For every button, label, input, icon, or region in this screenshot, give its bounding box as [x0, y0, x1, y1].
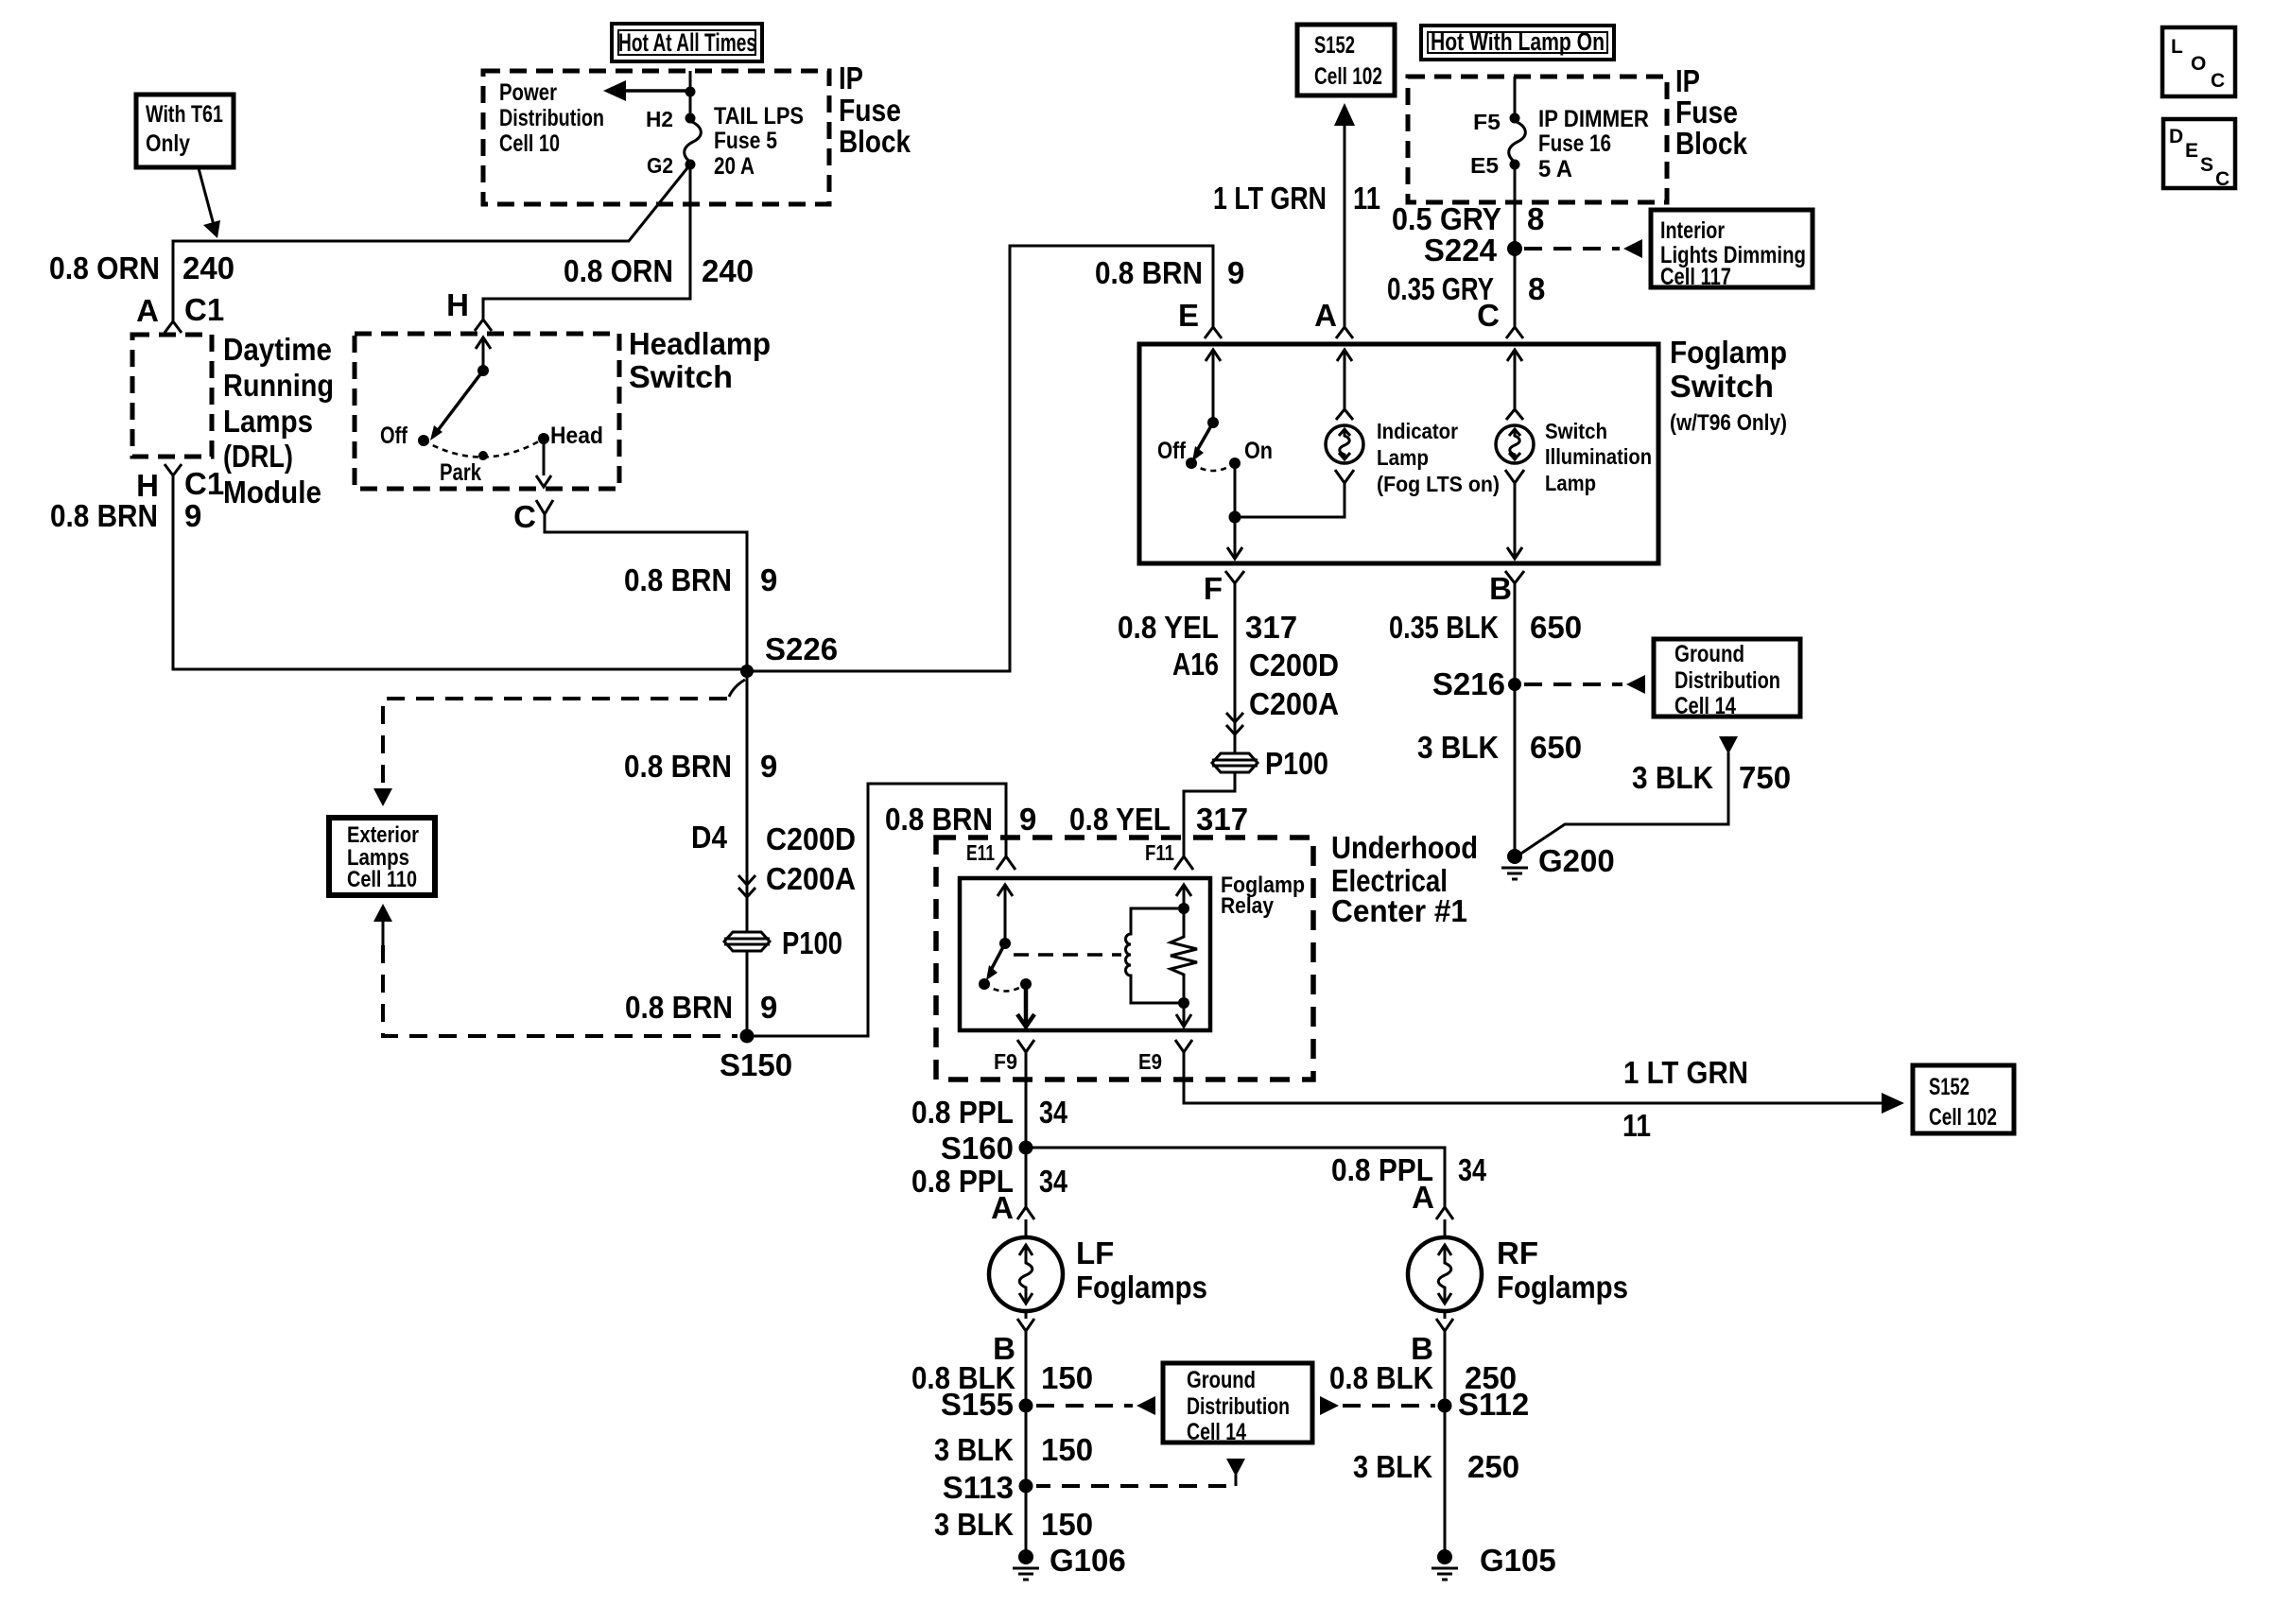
svg-text:C: C: [2211, 70, 2225, 92]
reference box S152 Cell 102 (top): [1297, 25, 1395, 95]
splice S150: [720, 1029, 792, 1083]
wire 0.8 PPL 34 from F9 to S160: [1025, 1052, 1028, 1148]
svg-text:L: L: [2171, 36, 2183, 58]
svg-text:Park: Park: [440, 459, 481, 486]
svg-text:Cell 14: Cell 14: [1187, 1419, 1246, 1445]
wire 1 LT GRN 11 from E9 to S152 (bottom): [1184, 1052, 1904, 1114]
label 0.35 GRY 8: [1387, 271, 1545, 306]
terminal B of LF foglamp: [993, 1311, 1034, 1366]
svg-text:Running: Running: [223, 368, 334, 403]
dashed reference line to Exterior Lamps (top): [383, 699, 727, 785]
relay switch arm: [986, 938, 1011, 980]
label Foglamp Relay: [1221, 872, 1305, 919]
svg-text:Cell 102: Cell 102: [1929, 1104, 1997, 1131]
svg-text:F11: F11: [1145, 840, 1174, 865]
LF foglamp bulb: [989, 1219, 1207, 1311]
svg-text:A: A: [1314, 298, 1337, 333]
legend box DESC: [2163, 119, 2235, 190]
label 0.8 PPL 34 (LF): [911, 1164, 1068, 1199]
svg-text:Distribution: Distribution: [499, 105, 604, 131]
svg-text:S216: S216: [1432, 666, 1505, 701]
wire 0.8 YEL 317 from F terminal down: [1234, 583, 1237, 753]
svg-text:F5: F5: [1473, 110, 1501, 134]
svg-text:Foglamps: Foglamps: [1076, 1270, 1207, 1304]
legend box LOC: [2162, 27, 2235, 96]
svg-text:34: 34: [1039, 1095, 1068, 1130]
Headlamp Switch dashed box: [355, 334, 619, 489]
svg-text:Hot At All Times: Hot At All Times: [618, 28, 756, 57]
svg-text:317: 317: [1245, 610, 1297, 645]
terminal B of RF foglamp: [1411, 1311, 1453, 1366]
dashed reference line S216 to Ground Distribution: [1524, 675, 1645, 694]
Foglamp Relay box: [960, 878, 1210, 1030]
fuse 5 "TAIL LPS Fuse 5 20 A": [647, 103, 804, 180]
svg-text:S160: S160: [941, 1131, 1014, 1166]
svg-text:11: 11: [1353, 181, 1380, 216]
svg-text:S113: S113: [943, 1470, 1014, 1505]
wire junction to H2: [689, 92, 692, 118]
svg-text:A16: A16: [1172, 647, 1219, 682]
svg-text:1 LT GRN: 1 LT GRN: [1623, 1055, 1748, 1090]
svg-text:11: 11: [1622, 1108, 1651, 1143]
svg-text:240: 240: [182, 251, 234, 285]
ground G105: [1431, 1543, 1556, 1580]
svg-text:O: O: [2191, 53, 2206, 75]
svg-text:G106: G106: [1050, 1543, 1126, 1578]
title box "Hot At All Times": [612, 24, 762, 61]
wire 0.8 BLK 250 from RF B to S112: [1444, 1331, 1447, 1406]
svg-text:0.5 GRY: 0.5 GRY: [1392, 201, 1501, 236]
svg-text:0.8 BRN: 0.8 BRN: [624, 562, 732, 597]
svg-text:Fuse: Fuse: [1675, 95, 1738, 130]
dashed reference line S224 to Interior Lights Dimming: [1524, 239, 1642, 258]
wire 0.8 BRN 9 from S226 down to S150: [746, 671, 749, 932]
svg-text:240: 240: [702, 253, 754, 288]
wire Head contact to C terminal: [536, 439, 551, 487]
svg-text:Switch: Switch: [629, 359, 733, 394]
wire 0.8 BLK 150 from LF B to S155: [1025, 1331, 1028, 1406]
splice S224: [1424, 233, 1522, 268]
svg-text:F: F: [1204, 571, 1223, 606]
svg-text:Fuse: Fuse: [839, 93, 901, 128]
foglamp switch C pin wire: [1506, 350, 1523, 420]
wire 3 BLK 150 from S113 to G106: [1025, 1486, 1028, 1557]
svg-text:150: 150: [1041, 1360, 1093, 1395]
switch illumination lamp: [1496, 419, 1652, 495]
terminal A / C1 of DRL module: [136, 292, 224, 333]
svg-text:S152: S152: [1314, 32, 1355, 59]
svg-text:Fuse 5: Fuse 5: [714, 128, 777, 154]
wire 0.8 YEL 317 from P100 to F11: [1184, 772, 1235, 856]
svg-text:A: A: [991, 1190, 1014, 1225]
svg-text:Cell 10: Cell 10: [499, 130, 560, 157]
relay switch pin wire (E11): [998, 885, 1013, 943]
svg-text:34: 34: [1458, 1152, 1487, 1187]
wire 0.8 BRN 9 from S150 to E11: [747, 784, 1006, 1036]
reference box Interior Lights Dimming Cell 117: [1651, 210, 1813, 290]
svg-text:0.8 ORN: 0.8 ORN: [49, 251, 160, 285]
svg-text:C: C: [513, 499, 536, 534]
label 0.8 BLK 250: [1329, 1360, 1517, 1395]
svg-text:(DRL): (DRL): [223, 439, 293, 474]
svg-text:Ground: Ground: [1674, 641, 1744, 667]
svg-text:Cell 117: Cell 117: [1660, 264, 1731, 290]
wire coil bottom to E9: [1176, 1003, 1191, 1027]
label 3 BLK 150 (mid): [934, 1432, 1093, 1467]
arrow into Exterior Lamps box: [373, 788, 392, 806]
contact Off (foglamp switch): [1157, 438, 1197, 469]
label 0.8 YEL 317 (lower): [1069, 802, 1248, 837]
splice S112: [1438, 1387, 1530, 1422]
svg-text:RF: RF: [1497, 1235, 1538, 1270]
reference box Exterior Lamps Cell 110: [329, 818, 435, 895]
svg-text:E11: E11: [966, 840, 995, 865]
svg-text:9: 9: [1019, 802, 1036, 837]
svg-text:0.8 BRN: 0.8 BRN: [625, 990, 733, 1025]
svg-text:Ground: Ground: [1187, 1367, 1256, 1393]
svg-text:3 BLK: 3 BLK: [1353, 1449, 1432, 1484]
svg-text:With T61: With T61: [146, 101, 223, 128]
pin F11: [1145, 840, 1193, 870]
note box "With T61 Only": [136, 95, 234, 167]
svg-text:Block: Block: [839, 124, 911, 159]
svg-text:650: 650: [1530, 730, 1582, 765]
label 0.8 ORN 240 (right): [564, 253, 754, 288]
wire from Hot At All Times into fuse block: [689, 71, 692, 92]
label 3 BLK 250: [1353, 1449, 1519, 1484]
svg-text:0.8 BRN: 0.8 BRN: [1095, 255, 1203, 290]
relay actuation dashed link: [1014, 953, 1121, 957]
headlamp switch arm: [430, 365, 489, 441]
svg-text:LF: LF: [1076, 1235, 1114, 1270]
label 0.8 PPL 34 (RF): [1331, 1152, 1487, 1187]
splice S155: [941, 1387, 1033, 1422]
svg-text:Off: Off: [380, 423, 408, 449]
svg-text:0.8 PPL: 0.8 PPL: [911, 1095, 1014, 1130]
svg-text:750: 750: [1739, 760, 1791, 795]
headlamp switch wire into pivot: [476, 337, 491, 371]
pin E9: [1138, 1040, 1192, 1074]
svg-text:Center #1: Center #1: [1331, 893, 1467, 928]
splice S226: [740, 631, 838, 678]
svg-text:Lamp: Lamp: [1377, 445, 1429, 470]
svg-text:S: S: [2200, 154, 2213, 176]
label 0.5 GRY 8: [1392, 201, 1544, 236]
svg-text:G105: G105: [1480, 1543, 1556, 1578]
reference box Ground Distribution Cell 14 (upper): [1654, 639, 1800, 719]
svg-text:0.35 BLK: 0.35 BLK: [1389, 610, 1499, 645]
terminal B of foglamp switch: [1489, 571, 1524, 606]
wire 1 LT GRN 11 up-arrow to S152: [1334, 103, 1355, 327]
svg-text:On: On: [1244, 438, 1273, 464]
foglamp switch E pin wire: [1206, 350, 1221, 423]
label 1 LT GRN 11 (bottom): [1622, 1055, 1748, 1143]
wire 0.5 GRY 8 from E5 to S224: [1514, 164, 1517, 327]
terminal A of foglamp switch: [1314, 298, 1353, 338]
svg-text:Off: Off: [1157, 438, 1187, 464]
wire 0.8 ORN 240 from G2 to headlamp switch: [483, 164, 690, 320]
svg-text:Illumination: Illumination: [1545, 444, 1652, 469]
svg-text:0.8 BLK: 0.8 BLK: [1329, 1360, 1433, 1395]
svg-text:C200A: C200A: [766, 861, 856, 896]
label 0.8 YEL 317: [1118, 610, 1297, 645]
svg-text:Indicator: Indicator: [1377, 419, 1458, 443]
grommet P100 (F branch): [1212, 746, 1328, 781]
svg-text:C: C: [2215, 168, 2230, 190]
Underhood Electrical Center #1 dashed box: [936, 838, 1313, 1080]
svg-text:Foglamp: Foglamp: [1670, 335, 1787, 370]
svg-text:0.8 BRN: 0.8 BRN: [50, 498, 158, 533]
svg-text:E: E: [2185, 140, 2198, 162]
label IP Fuse Block (left): [839, 60, 911, 159]
ground G106: [1013, 1543, 1126, 1580]
svg-text:S112: S112: [1458, 1387, 1529, 1422]
label 0.8 BRN 9 (below DRL): [50, 498, 201, 533]
terminal H of headlamp switch: [446, 287, 492, 331]
arrow out of Exterior Lamps box toward S150: [373, 904, 392, 945]
terminal E of foglamp switch: [1178, 298, 1222, 338]
svg-text:3 BLK: 3 BLK: [934, 1432, 1014, 1467]
label 0.8 BRN 9 (above S150): [625, 990, 777, 1025]
svg-text:Only: Only: [146, 130, 190, 157]
svg-text:1 LT GRN: 1 LT GRN: [1213, 181, 1327, 216]
pin H2: [646, 107, 696, 131]
label Underhood Electrical Center #1: [1331, 830, 1478, 928]
svg-text:C200D: C200D: [766, 821, 856, 856]
wire arrow to Power Distribution: [603, 80, 686, 101]
wire 0.8 PPL 34 from S160 to LF foglamp: [1025, 1148, 1028, 1207]
label 0.35 BLK 650: [1389, 610, 1582, 645]
wire into fuse 16: [1514, 77, 1517, 118]
svg-text:3 BLK: 3 BLK: [934, 1507, 1014, 1542]
svg-text:IP: IP: [839, 60, 863, 95]
dashed reference line Exterior Lamps to S150: [383, 945, 737, 1036]
svg-text:C200D: C200D: [1249, 648, 1339, 682]
wire 0.8 BRN 9 from S226 to foglamp switch E: [747, 246, 1213, 671]
svg-text:20 A: 20 A: [714, 153, 755, 180]
Foglamp Switch box: [1139, 344, 1658, 563]
wire 0.8 BRN 9 from headlamp C to S226: [545, 514, 747, 669]
wire 3 BLK 750 from Ground Distribution to G200: [1519, 736, 1738, 855]
wire On contact down to F junction: [1234, 463, 1237, 517]
wire 3 BLK 250 from S112 to G105: [1444, 1406, 1447, 1557]
svg-text:Switch: Switch: [1670, 369, 1774, 404]
svg-text:G2: G2: [647, 153, 673, 178]
svg-text:(Fog LTS on): (Fog LTS on): [1377, 472, 1500, 496]
relay resistor: [1171, 908, 1197, 1003]
label 0.8 BRN 9 (middle): [624, 749, 777, 784]
svg-text:34: 34: [1039, 1164, 1068, 1199]
svg-text:Cell 14: Cell 14: [1674, 693, 1736, 719]
reference box Ground Distribution Cell 14 (lower): [1163, 1363, 1312, 1445]
svg-text:S152: S152: [1929, 1074, 1969, 1100]
foglamp switch arm: [1192, 417, 1219, 461]
foglamp switch A pin wire: [1336, 350, 1353, 420]
ground G200: [1501, 843, 1615, 879]
dashed reference line Ground Distribution to S112: [1320, 1396, 1435, 1415]
label 0.8 PPL 34 (upper): [911, 1095, 1068, 1130]
svg-text:Block: Block: [1675, 126, 1748, 161]
svg-text:9: 9: [760, 562, 777, 597]
contact Head (headlamp switch): [538, 423, 603, 449]
IP fuse block (left) dashed outline: [483, 71, 829, 204]
svg-text:9: 9: [760, 990, 777, 1025]
connector C200D/C200A (DRL branch) pin D4: [691, 820, 856, 897]
dashed reference hook from S226: [729, 680, 745, 697]
svg-text:Distribution: Distribution: [1187, 1393, 1290, 1420]
svg-text:B: B: [1489, 571, 1512, 606]
svg-text:150: 150: [1041, 1507, 1093, 1542]
label Power Distribution Cell 10: [499, 79, 604, 157]
terminal A of RF foglamp: [1412, 1180, 1453, 1219]
dashed throw arc relay contacts: [984, 984, 1026, 992]
svg-text:Cell 102: Cell 102: [1314, 63, 1382, 90]
terminal C of headlamp switch: [513, 499, 553, 534]
svg-text:0.8 ORN: 0.8 ORN: [564, 253, 673, 288]
relay contact (output): [1020, 978, 1032, 990]
label 3 BLK 150 (lower): [934, 1507, 1093, 1542]
node junction above fuse: [685, 87, 696, 97]
label 3 BLK 750: [1632, 760, 1791, 795]
label IP Fuse Block (right): [1675, 63, 1748, 161]
pin E11: [966, 840, 1015, 870]
label 0.8 BRN 9 (E11): [885, 802, 1036, 837]
wire 3 BLK 150 from S155 to S113: [1025, 1406, 1028, 1486]
reference box S152 Cell 102 (bottom): [1913, 1065, 2014, 1133]
pin F9: [994, 1040, 1034, 1074]
IP fuse block (right) dashed outline: [1408, 77, 1667, 202]
svg-text:E5: E5: [1470, 153, 1499, 178]
svg-text:Power: Power: [499, 79, 557, 106]
wire switch illumination lamp to B terminal: [1507, 483, 1522, 559]
splice S216: [1432, 666, 1521, 701]
svg-text:150: 150: [1041, 1432, 1093, 1467]
wire junction down to F terminal: [1227, 517, 1242, 559]
wire P100 to S150: [746, 951, 749, 1036]
svg-text:650: 650: [1530, 610, 1582, 645]
wire relay output to F9: [1017, 984, 1034, 1027]
svg-text:8: 8: [1528, 271, 1545, 306]
label 1 LT GRN 11: [1213, 181, 1380, 216]
terminal H / C1 of DRL module: [136, 464, 224, 503]
svg-text:IP: IP: [1675, 63, 1700, 98]
svg-text:Exterior: Exterior: [347, 822, 419, 848]
svg-text:D: D: [2169, 126, 2183, 147]
svg-text:Interior: Interior: [1660, 217, 1725, 244]
svg-text:Underhood: Underhood: [1331, 830, 1478, 865]
svg-text:C1: C1: [184, 466, 224, 501]
svg-text:D4: D4: [691, 820, 728, 855]
svg-text:H: H: [446, 287, 469, 322]
svg-text:8: 8: [1527, 201, 1544, 236]
Daytime Running Lamps (DRL) Module dashed box: [132, 335, 212, 457]
node switch output junction: [1229, 511, 1241, 524]
pin F5: [1473, 110, 1520, 134]
svg-text:Relay: Relay: [1221, 893, 1275, 919]
svg-text:Distribution: Distribution: [1674, 667, 1780, 694]
dashed reference from Ground Distribution down to S113: [1036, 1459, 1245, 1486]
svg-text:0.8 YEL: 0.8 YEL: [1069, 802, 1171, 837]
connector C200D/C200A (F branch) pin A16: [1172, 647, 1339, 734]
svg-text:E: E: [1178, 298, 1199, 333]
svg-text:0.8 BRN: 0.8 BRN: [624, 749, 732, 784]
wire 0.8 ORN 240 from G2 to DRL module: [173, 164, 690, 321]
label 0.8 BLK 150: [911, 1360, 1093, 1395]
svg-text:E9: E9: [1138, 1049, 1162, 1074]
svg-text:Fuse 16: Fuse 16: [1538, 130, 1611, 157]
svg-text:Cell 110: Cell 110: [347, 867, 417, 892]
svg-text:S224: S224: [1424, 233, 1498, 268]
node coil bottom: [1178, 997, 1189, 1009]
svg-text:IP DIMMER: IP DIMMER: [1538, 106, 1649, 132]
label Foglamp Switch (w/T96 Only): [1670, 335, 1787, 436]
svg-text:9: 9: [184, 498, 201, 533]
svg-text:Module: Module: [223, 475, 321, 510]
svg-text:F9: F9: [994, 1049, 1017, 1074]
svg-text:S150: S150: [720, 1047, 792, 1082]
svg-text:3 BLK: 3 BLK: [1417, 730, 1499, 765]
dashed reference line S155 to Ground Distribution: [1036, 1396, 1155, 1415]
splice S160: [941, 1131, 1033, 1166]
svg-text:(w/T96 Only): (w/T96 Only): [1670, 410, 1787, 436]
svg-text:C200A: C200A: [1249, 686, 1339, 721]
svg-text:Daytime: Daytime: [223, 332, 332, 367]
svg-text:S155: S155: [941, 1387, 1014, 1422]
terminal A of LF foglamp: [991, 1190, 1034, 1225]
relay coil: [1126, 908, 1184, 1003]
svg-text:0.8 BRN: 0.8 BRN: [885, 802, 993, 837]
wire 0.8 BRN from DRL H to S226: [173, 475, 747, 669]
svg-text:Head: Head: [550, 423, 603, 449]
title box "Hot With Lamp On": [1421, 26, 1614, 60]
splice S113: [943, 1470, 1033, 1505]
svg-text:Switch: Switch: [1545, 419, 1607, 443]
svg-text:Foglamps: Foglamps: [1497, 1270, 1628, 1304]
RF foglamp bulb: [1408, 1219, 1628, 1311]
fuse 16 "IP DIMMER Fuse 16 5 A": [1470, 106, 1649, 182]
label 0.8 BRN 9 (E branch): [1095, 255, 1244, 290]
svg-text:A: A: [136, 293, 159, 328]
contact Off (headlamp switch): [380, 423, 429, 449]
dashed throw arc Off-On: [1191, 463, 1235, 471]
label 0.8 ORN 240 (left): [49, 251, 234, 285]
svg-text:Hot With Lamp On: Hot With Lamp On: [1431, 27, 1605, 56]
svg-text:G200: G200: [1538, 843, 1615, 878]
label DRL module: [223, 332, 334, 510]
svg-text:H2: H2: [646, 107, 673, 131]
relay coil pin wire (F11): [1176, 885, 1191, 908]
wire 0.35 BLK 650 from B to S216 to G200: [1514, 583, 1517, 856]
relay contact (open side): [979, 978, 990, 990]
svg-text:C1: C1: [184, 292, 224, 327]
node coil top: [1178, 903, 1189, 914]
svg-text:0.8 YEL: 0.8 YEL: [1118, 610, 1219, 645]
label Headlamp Switch: [629, 326, 771, 394]
contact On (foglamp switch): [1229, 438, 1273, 469]
svg-text:P100: P100: [1265, 746, 1328, 781]
svg-text:TAIL LPS: TAIL LPS: [714, 103, 804, 130]
terminal F of foglamp switch: [1204, 571, 1244, 606]
dashed throw arc Off-Park-Head: [424, 439, 544, 458]
svg-text:S226: S226: [765, 631, 838, 666]
label 3 BLK 650: [1417, 730, 1582, 765]
contact Park (headlamp switch): [440, 451, 488, 486]
svg-text:250: 250: [1467, 1449, 1519, 1484]
svg-text:5 A: 5 A: [1538, 156, 1572, 182]
wire junction to indicator lamp return: [1235, 483, 1345, 517]
svg-text:P100: P100: [782, 925, 842, 960]
svg-text:317: 317: [1196, 802, 1248, 837]
